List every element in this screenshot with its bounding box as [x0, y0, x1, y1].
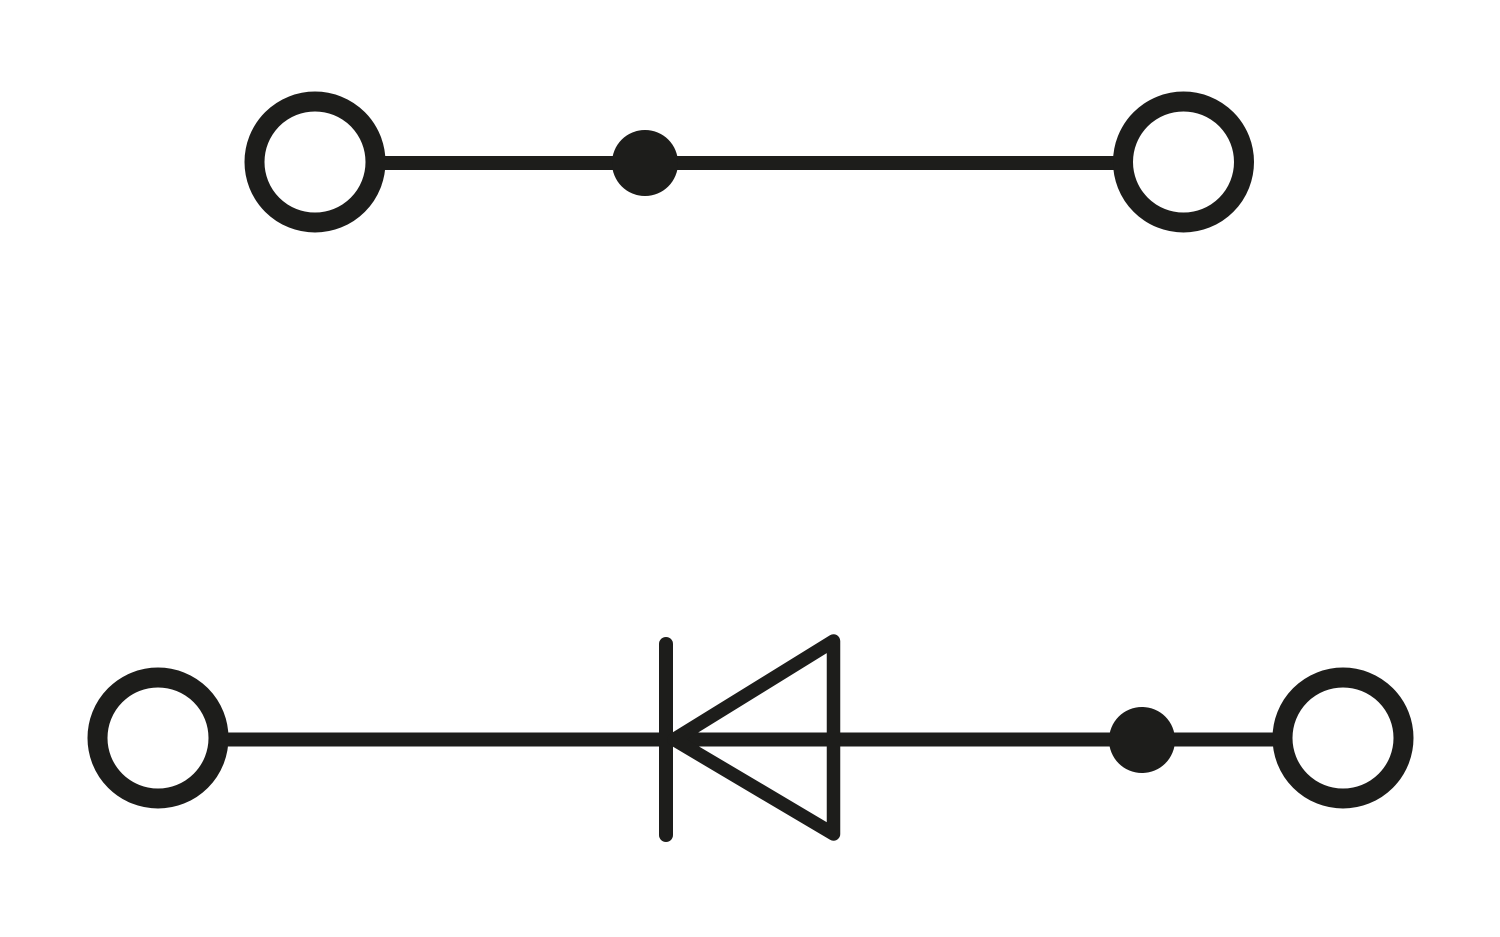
- diode D1 triangle: [674, 641, 834, 834]
- terminal circle 1 (top left): [255, 102, 376, 223]
- junction dot top: [612, 130, 678, 196]
- terminal circle 3 (bottom left): [98, 678, 219, 799]
- terminal circle 4 (bottom right): [1283, 678, 1404, 799]
- diode D1 cathode bar: [659, 644, 673, 835]
- wire top: [385, 156, 1114, 170]
- terminal circle 2 (top right): [1123, 102, 1244, 223]
- wire bottom: [228, 733, 1273, 747]
- junction dot bottom: [1109, 707, 1175, 773]
